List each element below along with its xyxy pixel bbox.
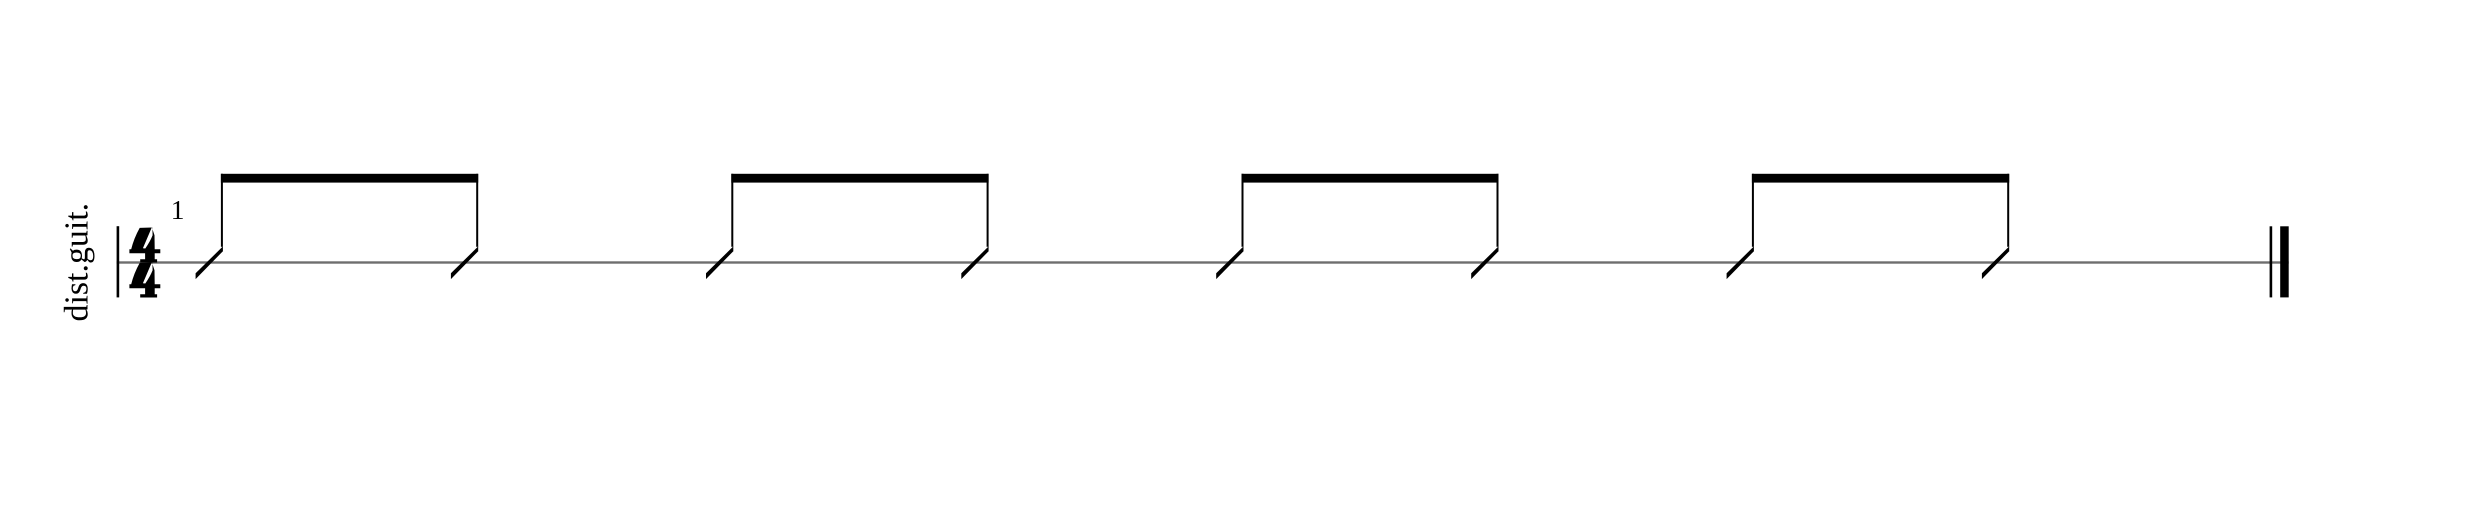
stem 1 [221,174,223,247]
stem 5 [1242,174,1244,247]
beam group 2 [706,174,989,279]
slash notehead 1 [196,246,223,279]
opening barline [117,226,120,297]
beam group 1 [196,174,479,279]
slash notehead 2 [451,246,478,279]
stem 3 [731,174,733,247]
stem 8 [2007,174,2009,247]
slash notehead 4 [961,246,988,279]
stem 7 [1752,174,1754,247]
beam 1 [221,174,478,183]
beam group 3 [1216,174,1498,279]
slash notehead 7 [1727,246,1754,279]
slash notehead 3 [706,246,733,279]
stem 6 [1497,174,1499,247]
svg-text:1: 1 [171,195,185,225]
slash notehead 6 [1471,246,1498,279]
beam 4 [1752,174,2009,183]
stem 4 [987,174,989,247]
final barline (thick stroke) [2280,226,2289,297]
beam 2 [731,174,988,183]
final barline (thin stroke) [2270,226,2273,297]
svg-text:dist.guit.: dist.guit. [59,203,96,322]
slash notehead 5 [1216,246,1243,279]
slash notehead 8 [1982,246,2009,279]
beam group 4 [1727,174,2010,279]
beam 3 [1242,174,1499,183]
stem 2 [476,174,478,247]
staff line (single-line rhythm staff) [117,261,2289,263]
time signature numeral 4 (upper) [129,228,160,263]
time signature numeral 4 (lower) [129,263,160,298]
